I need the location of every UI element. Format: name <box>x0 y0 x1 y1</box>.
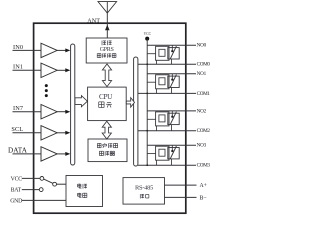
svg-text:NO0: NO0 <box>197 43 207 49</box>
antenna ANT <box>98 2 117 38</box>
wire buffer IN0 to bus <box>57 48 70 52</box>
junction VCC-COM1 <box>146 93 148 95</box>
arrow to antenna <box>105 25 110 30</box>
svg-text:GND: GND <box>10 199 22 205</box>
wire A+ <box>165 184 197 186</box>
wire K2 coil to COM line <box>156 126 158 131</box>
relay K3 blade <box>170 146 176 159</box>
relay K3 contact stub <box>171 145 173 152</box>
wire DATA to buffer <box>13 153 42 155</box>
wire buffer DATA to bus <box>57 152 70 156</box>
label SCL <box>11 126 23 133</box>
wire VCC <box>22 177 40 179</box>
wire NO2 <box>147 110 196 112</box>
text 电路 <box>78 193 87 198</box>
text 接口 <box>140 194 149 198</box>
label COM3 <box>197 163 211 169</box>
svg-text:VCC: VCC <box>11 176 23 182</box>
CPU unit U-CPU <box>88 87 127 121</box>
junction VCC-COM3 <box>146 164 148 166</box>
bus arrow IN-CPU <box>75 96 87 107</box>
wire VCC rail <box>146 39 148 166</box>
label BAT <box>11 188 22 194</box>
svg-text:GPRS: GPRS <box>100 47 114 53</box>
label NO3 <box>197 143 207 149</box>
wire VCC to K2 coil <box>147 118 155 120</box>
relay K1 blade <box>170 75 176 88</box>
text 电源 <box>78 184 88 189</box>
svg-text:NO1: NO1 <box>197 71 207 77</box>
buffer DATA <box>41 147 57 161</box>
wire buffer IN7 to bus <box>57 110 70 114</box>
label GND <box>10 199 22 205</box>
svg-text:COM3: COM3 <box>197 163 211 169</box>
wire BAT <box>22 189 39 191</box>
relay K1 contact box <box>168 76 179 87</box>
wire K3 coil to COM line <box>156 160 158 165</box>
RS-485 interface box U-485 <box>123 178 165 205</box>
label A+ <box>200 183 207 189</box>
enclosure box <box>34 23 186 213</box>
label NO0 <box>197 43 207 49</box>
switch S1 pole VCC <box>40 177 44 181</box>
text 短信 <box>102 41 112 46</box>
svg-text:A+: A+ <box>200 183 207 189</box>
svg-text:BAT: BAT <box>11 188 22 194</box>
svg-text:ANT: ANT <box>87 17 100 24</box>
wire COM0 <box>138 63 196 65</box>
svg-text:COM0: COM0 <box>197 62 211 68</box>
label NO2 <box>197 108 207 114</box>
svg-text:NO2: NO2 <box>197 108 207 114</box>
svg-text:SCL: SCL <box>11 126 23 133</box>
svg-text:COM2: COM2 <box>197 128 211 134</box>
wire IN1 to buffer <box>13 69 42 71</box>
wire B- <box>165 196 197 198</box>
relay K2 contact stub <box>171 111 173 118</box>
relay K0 coil <box>156 46 169 60</box>
text GPRS <box>100 47 114 53</box>
relay K0 contact stub <box>171 45 173 52</box>
wire switch to power <box>57 183 66 185</box>
text CPU <box>99 93 113 101</box>
label IN7 <box>13 105 23 112</box>
power supply box U-PWR <box>66 176 103 207</box>
svg-text:IN0: IN0 <box>13 44 23 51</box>
wire COM2 <box>138 130 196 132</box>
text 存储器 <box>99 151 114 156</box>
wire K1 contact to COM1 <box>171 88 173 94</box>
wire K1 coil to COM line <box>156 89 158 94</box>
label IN1 <box>13 64 23 71</box>
wire buffer SCL to bus <box>57 131 70 135</box>
wire buffer IN1 to bus <box>57 68 70 72</box>
svg-text:IN7: IN7 <box>13 105 23 112</box>
svg-text:DATA: DATA <box>8 146 28 154</box>
memory box U-MEM <box>88 139 127 162</box>
wire VCC to K0 coil <box>147 53 155 55</box>
wire K0 coil to COM line <box>156 60 158 64</box>
ellipsis inputs <box>45 84 48 97</box>
bus arrow CPU-OUT <box>126 98 134 108</box>
bus arrow CPU-MEM <box>102 121 111 139</box>
text 用户程序 <box>97 143 117 148</box>
junction VCC-COM0 <box>146 63 148 65</box>
relay K0 contact box <box>168 48 179 59</box>
label VCC <box>11 176 23 182</box>
svg-text:CPU: CPU <box>99 93 113 101</box>
relay K2 contact box <box>168 113 179 124</box>
GPRS RF module U-GPRS <box>86 38 127 63</box>
label B- <box>200 196 207 202</box>
label NO1 <box>197 71 207 77</box>
text RS-485 <box>135 185 153 192</box>
svg-text:IN1: IN1 <box>13 64 23 71</box>
wire IN7 to buffer <box>13 111 42 113</box>
buffer IN7 <box>41 105 57 119</box>
relay K2 blade <box>170 112 176 125</box>
label IN0 <box>13 44 23 51</box>
svg-text:RS-485: RS-485 <box>135 185 153 192</box>
label VCC relay rail <box>144 32 152 36</box>
svg-text:B−: B− <box>200 196 207 202</box>
label DATA <box>8 146 28 154</box>
text 单元 <box>99 102 112 108</box>
wire K3 contact to COM3 <box>171 159 173 165</box>
node VCC dot <box>145 37 149 41</box>
relay K3 contact box <box>168 148 179 159</box>
buffer IN1 <box>41 63 57 77</box>
switch S1 blade <box>44 179 53 183</box>
switch S1 pole BAT <box>39 188 43 192</box>
svg-text:VCC: VCC <box>144 32 152 36</box>
bus arrow GPRS-CPU <box>102 64 111 87</box>
output bus capsule <box>134 57 138 166</box>
wire VCC to K3 coil <box>147 153 155 155</box>
buffer IN0 <box>41 43 57 57</box>
text 射频模块 <box>97 53 116 57</box>
wire K0 contact to COM0 <box>171 59 173 64</box>
svg-text:NO3: NO3 <box>197 143 207 149</box>
relay K1 coil <box>156 75 169 89</box>
wire K2 contact to COM2 <box>171 125 173 131</box>
wire NO1 <box>147 73 196 75</box>
relay K1 contact stub <box>171 74 173 81</box>
switch S1 common <box>53 182 57 186</box>
junction VCC-COM2 <box>146 130 148 132</box>
wire COM1 <box>138 92 196 94</box>
relay K3 coil <box>156 146 169 160</box>
label ANT <box>87 17 100 24</box>
wire NO3 <box>147 144 196 146</box>
input bus capsule <box>71 44 75 165</box>
wire COM3 <box>138 164 196 166</box>
relay K0 blade <box>170 46 176 59</box>
buffer SCL <box>41 126 57 140</box>
wire GND <box>22 199 66 201</box>
label COM0 <box>197 62 211 68</box>
wire SCL to buffer <box>13 132 42 134</box>
wire IN0 to buffer <box>13 49 42 51</box>
wire NO0 <box>147 44 196 46</box>
svg-text:COM1: COM1 <box>197 91 211 97</box>
label COM2 <box>197 128 211 134</box>
label COM1 <box>197 91 211 97</box>
relay K2 coil <box>156 112 169 126</box>
wire VCC to K1 coil <box>147 81 155 83</box>
